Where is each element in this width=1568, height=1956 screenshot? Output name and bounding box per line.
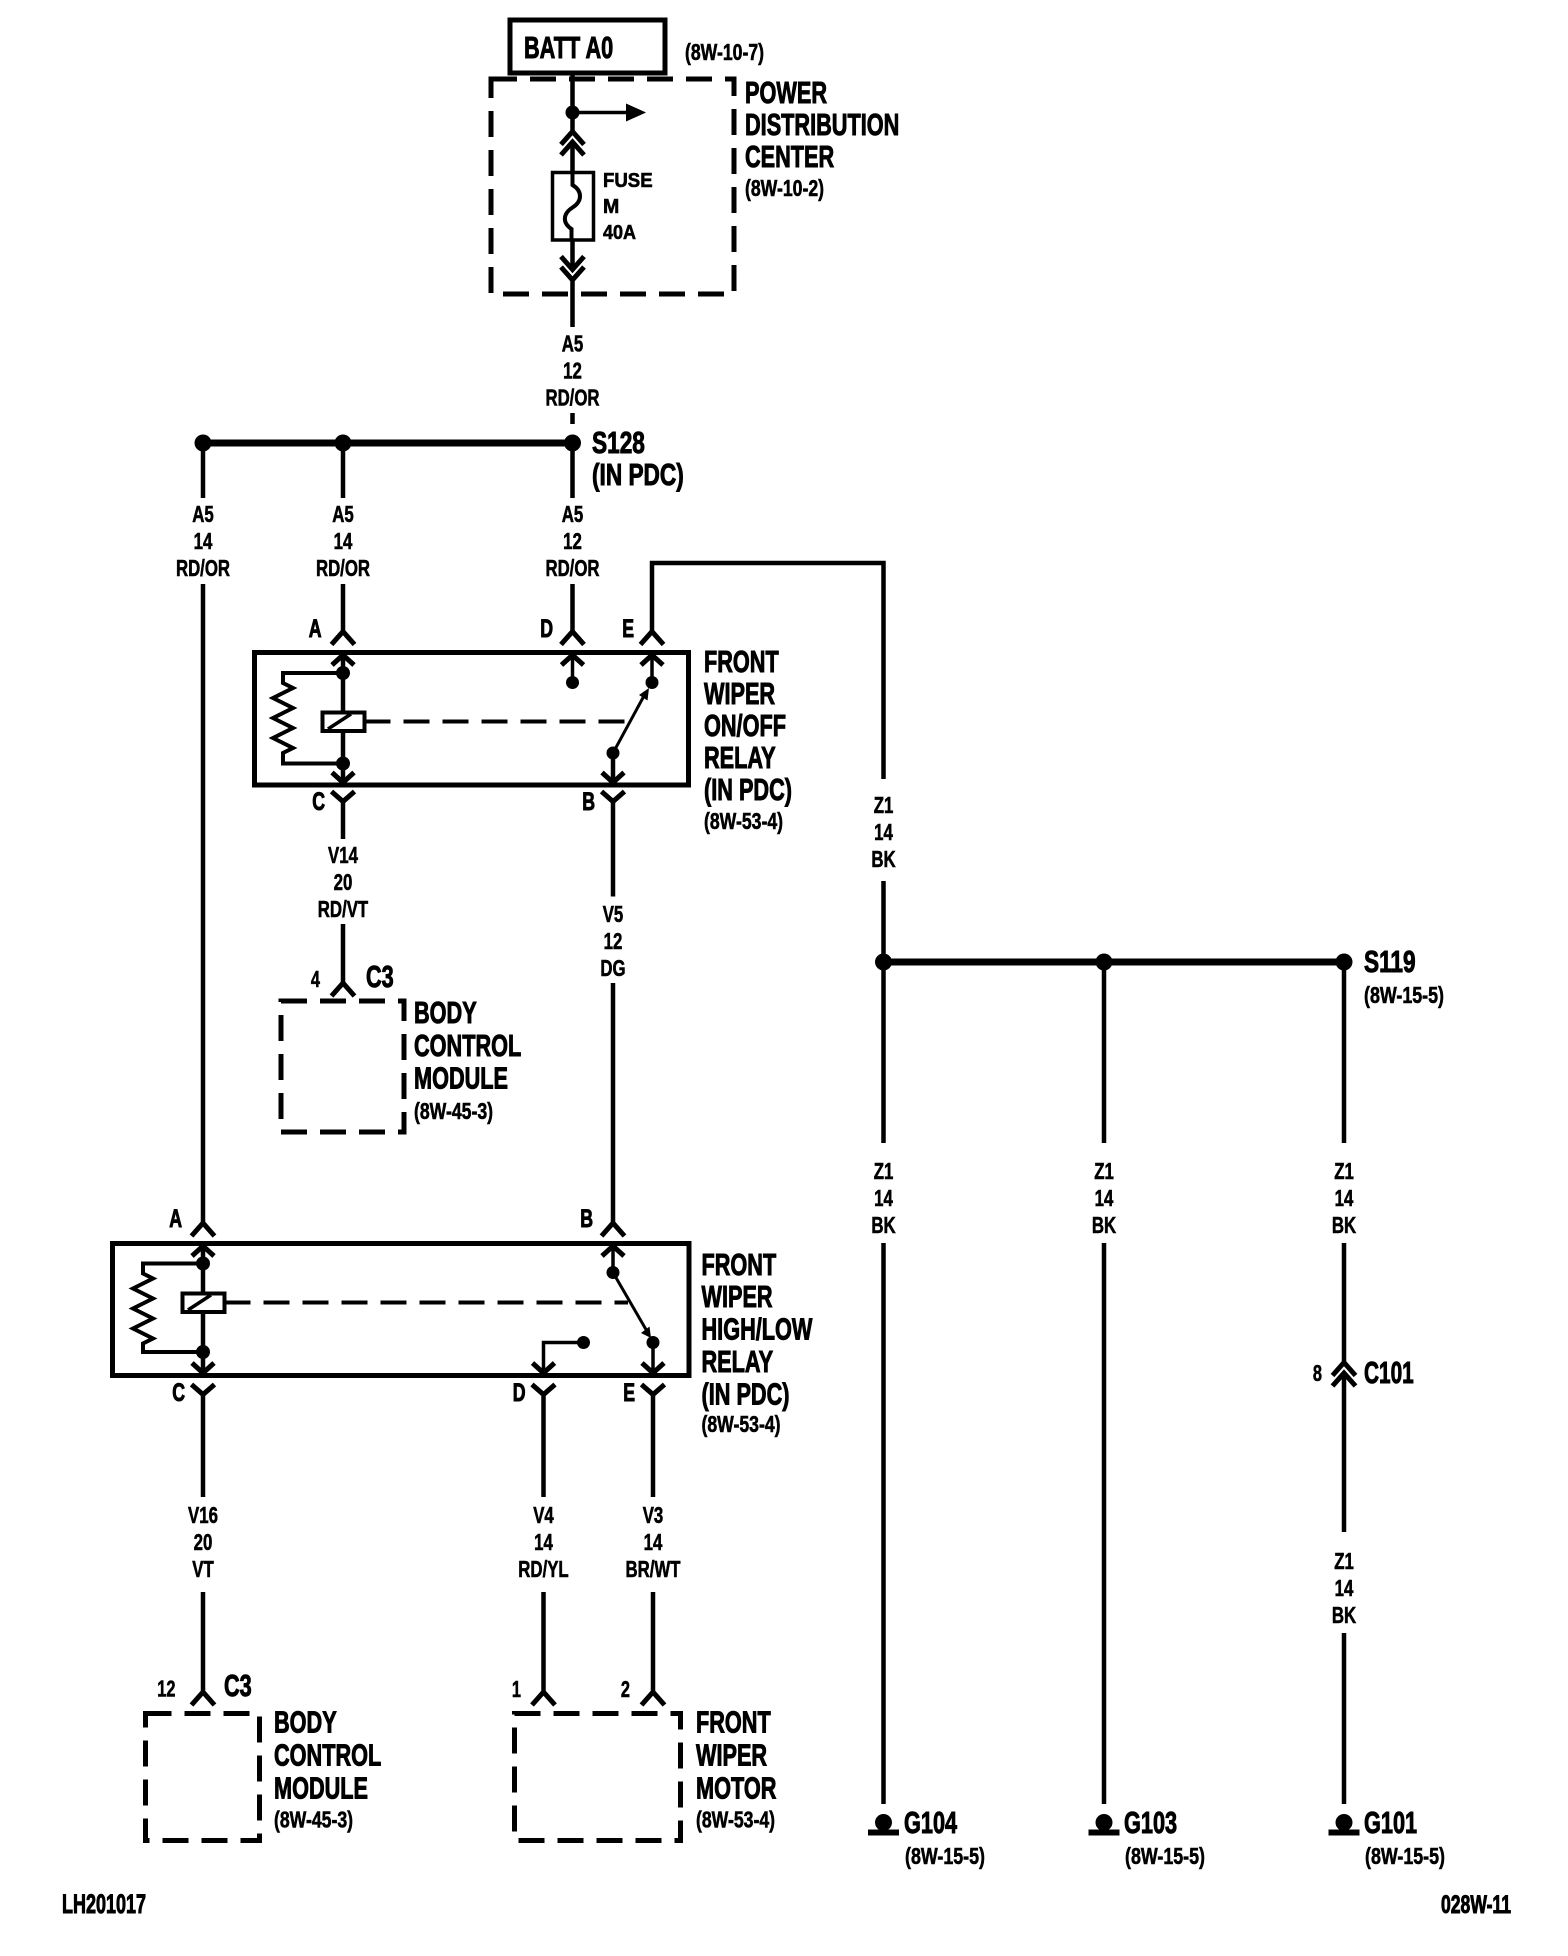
node dot S128: [564, 435, 581, 452]
stub pin E contact: [650, 655, 654, 677]
wire coil bottom: [341, 731, 346, 764]
wire pin B down: [611, 802, 616, 897]
node pin B contact relay 2: [607, 1266, 620, 1279]
relay 1 pin E male connector: [641, 655, 663, 665]
wire label Z1 14 BK g103: [1092, 1158, 1117, 1238]
svg-text:CENTER: CENTER: [745, 139, 834, 174]
relay 1 pin B female connector: [602, 792, 625, 802]
relay 2 pin C male connector: [192, 1363, 214, 1373]
svg-text:CONTROL: CONTROL: [274, 1738, 381, 1773]
wire label V5 12 DG v5: [600, 901, 625, 981]
svg-text:BR/WT: BR/WT: [626, 1556, 681, 1582]
connector C101 chevrons: [1333, 1363, 1356, 1387]
svg-text:BK: BK: [871, 846, 896, 872]
ground symbol G101: [1329, 1814, 1360, 1836]
svg-text:RD/OR: RD/OR: [545, 385, 599, 411]
wire to splice S119: [881, 881, 886, 962]
svg-text:C: C: [172, 1379, 185, 1407]
connector chevrons leaving PDC: [561, 257, 584, 281]
svg-text:(IN PDC): (IN PDC): [704, 772, 792, 807]
svg-text:MODULE: MODULE: [274, 1771, 368, 1806]
relay 2 pin B connector female: [602, 1223, 625, 1236]
svg-text:E: E: [623, 1379, 635, 1407]
svg-text:VT: VT: [192, 1556, 214, 1582]
svg-text:RD/OR: RD/OR: [176, 555, 230, 581]
svg-text:40A: 40A: [603, 222, 636, 244]
svg-text:8: 8: [1313, 1360, 1322, 1386]
wire pin A to coil node: [341, 655, 346, 673]
connector C3 pin 4: [332, 983, 355, 996]
wire label A5 14 RD/OR left: [176, 501, 230, 581]
svg-text:C3: C3: [366, 959, 394, 994]
label BODY CONTROL MODULE lower: [274, 1705, 381, 1833]
svg-text:(8W-15-5): (8W-15-5): [905, 1843, 985, 1869]
relay 1 pin E connector female: [641, 632, 664, 645]
svg-text:WIPER: WIPER: [704, 676, 775, 711]
node dot middle: [335, 435, 352, 452]
svg-text:028W-11: 028W-11: [1441, 1891, 1511, 1919]
relay 1 pin B male connector: [602, 773, 624, 783]
relay 2 pin E male connector: [642, 1363, 664, 1373]
relay 1 pin D connector female: [561, 632, 584, 645]
svg-text:V14: V14: [328, 842, 358, 868]
wire to ground G103: [1102, 1243, 1107, 1804]
svg-text:20: 20: [334, 869, 353, 895]
wire battery to junction: [570, 73, 575, 132]
svg-text:ON/OFF: ON/OFF: [704, 708, 786, 743]
svg-text:(8W-45-3): (8W-45-3): [274, 1807, 353, 1833]
svg-text:14: 14: [334, 528, 353, 554]
relay 1 coil: [323, 713, 365, 732]
wire to connector C101: [1342, 1243, 1347, 1363]
relay 1 pin C male connector: [332, 773, 354, 783]
node pin D contact: [566, 676, 579, 689]
ground wire middle drop: [1102, 962, 1107, 1143]
power distribution center dashed box: [491, 79, 734, 294]
svg-text:C3: C3: [224, 1668, 252, 1703]
label S128 (IN PDC): [592, 425, 684, 492]
svg-text:C: C: [312, 788, 325, 816]
svg-text:Z1: Z1: [1094, 1158, 1114, 1184]
label G104: [904, 1805, 985, 1869]
svg-text:FRONT: FRONT: [704, 644, 779, 679]
wire below C101: [1342, 1373, 1347, 1532]
svg-text:WIPER: WIPER: [702, 1279, 773, 1314]
node coil top: [336, 666, 350, 680]
svg-text:A: A: [169, 1205, 182, 1233]
svg-text:Z1: Z1: [874, 792, 894, 818]
relay 2 pin C female connector: [192, 1385, 215, 1395]
wire label V16 20 VT v16: [188, 1502, 218, 1582]
wire label Z1 14 BK upper right: [871, 792, 896, 872]
wire drop right: [570, 443, 575, 498]
wire label Z1 14 BK g101 upper: [1332, 1158, 1357, 1238]
svg-text:(IN PDC): (IN PDC): [702, 1377, 790, 1412]
ground wire left drop: [881, 962, 886, 1143]
battery feed box BATT A0: [510, 20, 665, 73]
wire pin D contact relay 2: [544, 1343, 584, 1374]
svg-text:DISTRIBUTION: DISTRIBUTION: [745, 107, 899, 142]
svg-text:G103: G103: [1124, 1805, 1177, 1840]
resistor in relay 1: [273, 673, 343, 764]
label BODY CONTROL MODULE upper: [414, 995, 521, 1124]
wire coil node to pin C: [341, 764, 346, 783]
connector chevrons in PDC: [561, 132, 584, 156]
svg-text:S119: S119: [1364, 944, 1416, 979]
wire drop middle: [341, 443, 346, 498]
svg-text:RD/VT: RD/VT: [318, 896, 368, 922]
svg-text:BK: BK: [1092, 1212, 1117, 1238]
svg-text:BODY: BODY: [274, 1705, 337, 1740]
svg-text:D: D: [540, 615, 553, 643]
svg-text:CONTROL: CONTROL: [414, 1028, 521, 1063]
svg-text:(8W-53-4): (8W-53-4): [704, 808, 783, 834]
node coil top relay 2: [196, 1257, 210, 1271]
svg-text:HIGH/LOW: HIGH/LOW: [702, 1312, 813, 1347]
svg-text:14: 14: [874, 819, 893, 845]
node pin D contact relay 2: [577, 1336, 590, 1349]
ground symbol G103: [1089, 1814, 1120, 1836]
node coil bottom relay 2: [196, 1345, 210, 1359]
svg-text:BODY: BODY: [414, 995, 477, 1030]
svg-text:FRONT: FRONT: [696, 1705, 771, 1740]
svg-text:BATT A0: BATT A0: [524, 30, 613, 65]
svg-text:S128: S128: [592, 425, 645, 460]
svg-text:FRONT: FRONT: [702, 1247, 777, 1282]
wire pin E down relay 2: [651, 1395, 656, 1498]
svg-text:A5: A5: [192, 501, 214, 527]
svg-text:14: 14: [534, 1529, 553, 1555]
junction node in PDC: [566, 106, 580, 120]
svg-text:FUSE: FUSE: [603, 170, 653, 192]
wire switch pivot to pin B: [611, 753, 616, 783]
splice S128 bus: [203, 440, 573, 447]
front wiper high/low relay box U2: [113, 1244, 690, 1376]
svg-text:4: 4: [311, 966, 320, 992]
wire to ground G104: [881, 1243, 886, 1804]
svg-text:RD/OR: RD/OR: [545, 555, 599, 581]
wire label V14 20 RD/VT bcm: [318, 842, 368, 922]
fuse M 40A: [553, 170, 653, 244]
wire relay pin E up and right to ground net: [652, 563, 884, 779]
svg-text:BK: BK: [1332, 1602, 1357, 1628]
svg-text:Z1: Z1: [1334, 1158, 1354, 1184]
svg-text:M: M: [603, 196, 619, 218]
wire to on/off relay pin D: [570, 584, 575, 632]
label POWER DISTRIBUTION CENTER: [745, 75, 899, 201]
svg-text:20: 20: [194, 1529, 213, 1555]
svg-text:14: 14: [1335, 1575, 1354, 1601]
wire to BCM connector pin 12: [201, 1592, 206, 1692]
relay 1 pin C female connector: [332, 792, 355, 802]
resistor in relay 2: [133, 1264, 203, 1353]
svg-text:MODULE: MODULE: [414, 1061, 508, 1096]
wire label V3 14 BR/WT v3: [626, 1502, 681, 1582]
splice S119 bus: [884, 959, 1345, 966]
relay 2 pin E female connector: [642, 1385, 665, 1395]
svg-text:G104: G104: [904, 1805, 958, 1840]
relay 1 pin A male connector: [332, 655, 354, 665]
svg-text:12: 12: [604, 928, 623, 954]
wire to motor pin 2: [651, 1592, 656, 1692]
svg-text:POWER: POWER: [745, 75, 827, 110]
wire coil node to pin C relay 2: [201, 1352, 206, 1373]
front wiper motor dashed box: [515, 1714, 681, 1841]
svg-text:(8W-53-4): (8W-53-4): [702, 1411, 781, 1437]
arrow feed to other circuits: [573, 104, 647, 122]
node dot left: [195, 435, 212, 452]
node pin E contact: [646, 676, 659, 689]
ground symbol G104: [868, 1814, 899, 1836]
label FRONT WIPER MOTOR: [696, 1705, 776, 1833]
relay 2 pin A male connector: [192, 1246, 214, 1256]
svg-text:14: 14: [194, 528, 213, 554]
node dot S119 left: [875, 954, 892, 971]
stub pin B contact relay 2: [611, 1246, 615, 1267]
wire fuse to exit chevrons: [570, 240, 575, 270]
svg-text:12: 12: [157, 1676, 175, 1702]
svg-text:(8W-10-7): (8W-10-7): [685, 39, 764, 65]
label G103: [1124, 1805, 1205, 1869]
wire pin E contact down relay 2: [651, 1343, 655, 1374]
svg-text:12: 12: [563, 528, 582, 554]
svg-text:B: B: [582, 788, 595, 816]
svg-text:B: B: [580, 1205, 593, 1233]
svg-text:12: 12: [563, 358, 582, 384]
svg-text:WIPER: WIPER: [696, 1738, 767, 1773]
node dot S119 middle: [1096, 954, 1113, 971]
svg-text:MOTOR: MOTOR: [696, 1771, 776, 1806]
label FRONT WIPER ON/OFF RELAY: [704, 644, 792, 834]
node dot S119 right: [1336, 954, 1353, 971]
body control module dashed box upper: [281, 1001, 404, 1132]
wire pin A to coil node relay 2: [201, 1246, 206, 1264]
svg-text:A: A: [309, 615, 322, 643]
svg-text:RELAY: RELAY: [702, 1344, 774, 1379]
svg-text:C101: C101: [1364, 1355, 1414, 1390]
relay 2 pin A connector female: [192, 1223, 215, 1236]
wire coil bottom relay 2: [201, 1312, 206, 1352]
wire drop left: [201, 443, 206, 498]
relay 2 pin D male connector: [533, 1363, 555, 1373]
wire to on/off relay pin A: [341, 584, 346, 632]
svg-text:Z1: Z1: [874, 1158, 894, 1184]
wire label A5 12 RD/OR top: [545, 331, 599, 411]
svg-text:BK: BK: [1332, 1212, 1357, 1238]
svg-text:RELAY: RELAY: [704, 740, 776, 775]
svg-text:(8W-45-3): (8W-45-3): [414, 1098, 493, 1124]
wire label A5 12 RD/OR lower: [545, 501, 599, 581]
wire label V4 14 RD/YL v4: [518, 1502, 568, 1582]
svg-text:V3: V3: [643, 1502, 664, 1528]
wire coil top relay 2: [201, 1264, 206, 1294]
svg-text:BK: BK: [871, 1212, 896, 1238]
wire to label A5: [570, 280, 575, 327]
label G101: [1364, 1805, 1445, 1869]
svg-text:G101: G101: [1364, 1805, 1417, 1840]
svg-text:V5: V5: [603, 901, 624, 927]
svg-text:V16: V16: [188, 1502, 218, 1528]
svg-text:(8W-15-5): (8W-15-5): [1365, 1843, 1445, 1869]
wire pin C down: [341, 802, 346, 840]
svg-text:14: 14: [1335, 1185, 1354, 1211]
svg-text:Z1: Z1: [1334, 1548, 1354, 1574]
svg-text:(8W-53-4): (8W-53-4): [696, 1807, 775, 1833]
body control module dashed box lower: [146, 1714, 260, 1841]
wire pin D down relay 2: [541, 1395, 546, 1498]
ground wire right drop: [1342, 962, 1347, 1143]
node coil bottom: [336, 757, 350, 771]
svg-text:1: 1: [512, 1676, 521, 1702]
connector motor pin 1: [532, 1692, 555, 1705]
svg-text:RD/YL: RD/YL: [518, 1556, 568, 1582]
svg-text:(8W-15-5): (8W-15-5): [1364, 982, 1444, 1008]
label S119 (8W-15-5): [1364, 944, 1444, 1008]
svg-text:A5: A5: [562, 501, 584, 527]
relay 2 pin B male connector: [602, 1246, 624, 1256]
connector C3 pin 12: [192, 1692, 215, 1705]
front wiper on/off relay box U1: [255, 653, 689, 786]
wire pin C down relay 2: [201, 1395, 206, 1498]
wire to high/low relay pin B: [611, 983, 616, 1223]
wire chevrons to fuse: [570, 142, 575, 173]
svg-text:A5: A5: [562, 331, 584, 357]
svg-text:DG: DG: [600, 955, 625, 981]
switch arm relay 2: [613, 1273, 660, 1350]
stub pin D contact: [571, 655, 575, 677]
svg-text:E: E: [622, 615, 634, 643]
relay 2 coil: [183, 1294, 225, 1313]
svg-text:A5: A5: [332, 501, 354, 527]
wire to ground G101: [1342, 1633, 1347, 1804]
svg-text:14: 14: [1095, 1185, 1114, 1211]
long wire to high/low relay pin A: [201, 584, 206, 1223]
wire to motor pin 1: [541, 1592, 546, 1692]
svg-text:RD/OR: RD/OR: [316, 555, 370, 581]
wire stub above splice: [570, 413, 575, 424]
svg-text:2: 2: [621, 1676, 630, 1702]
svg-text:LH201017: LH201017: [62, 1889, 146, 1919]
svg-text:D: D: [513, 1379, 526, 1407]
wire to BCM connector: [341, 924, 346, 983]
wire coil top: [341, 673, 346, 713]
svg-text:14: 14: [874, 1185, 893, 1211]
switch arm relay 1: [607, 688, 650, 760]
dashed actuation link relay 1: [365, 720, 629, 724]
svg-text:V4: V4: [533, 1502, 554, 1528]
relay 1 pin A connector female: [332, 632, 355, 645]
relay 2 pin D female connector: [532, 1385, 555, 1395]
label FRONT WIPER HIGH/LOW RELAY: [702, 1247, 813, 1437]
wire label Z1 14 BK g104: [871, 1158, 896, 1238]
relay 1 pin D male connector: [562, 655, 584, 665]
wire label A5 14 RD/OR middle: [316, 501, 370, 581]
svg-text:(8W-15-5): (8W-15-5): [1125, 1843, 1205, 1869]
svg-text:(IN PDC): (IN PDC): [592, 457, 684, 492]
svg-text:14: 14: [644, 1529, 663, 1555]
connector motor pin 2: [642, 1692, 665, 1705]
wire label Z1 14 BK g101 lower: [1332, 1548, 1357, 1628]
svg-text:(8W-10-2): (8W-10-2): [745, 175, 824, 201]
dashed actuation link relay 2: [225, 1301, 629, 1305]
